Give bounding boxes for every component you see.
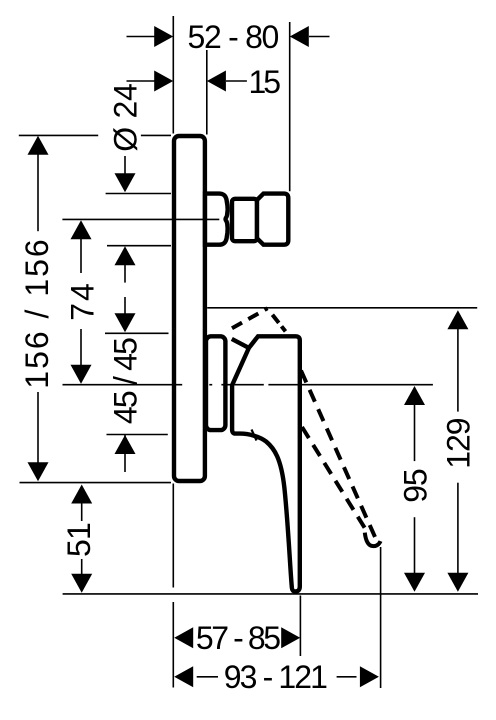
svg-text:Ø 24: Ø 24 [107, 84, 143, 152]
svg-text:51: 51 [61, 523, 97, 557]
svg-text:15: 15 [249, 64, 281, 100]
svg-text:52 - 80: 52 - 80 [188, 19, 279, 55]
svg-text:93 - 121: 93 - 121 [224, 659, 327, 695]
svg-text:45 / 45: 45 / 45 [107, 338, 143, 424]
svg-text:95: 95 [397, 469, 433, 503]
svg-text:129: 129 [440, 418, 476, 469]
svg-text:156 / 156: 156 / 156 [19, 237, 55, 388]
svg-text:57 - 85: 57 - 85 [196, 620, 280, 656]
svg-text:74: 74 [65, 281, 101, 321]
